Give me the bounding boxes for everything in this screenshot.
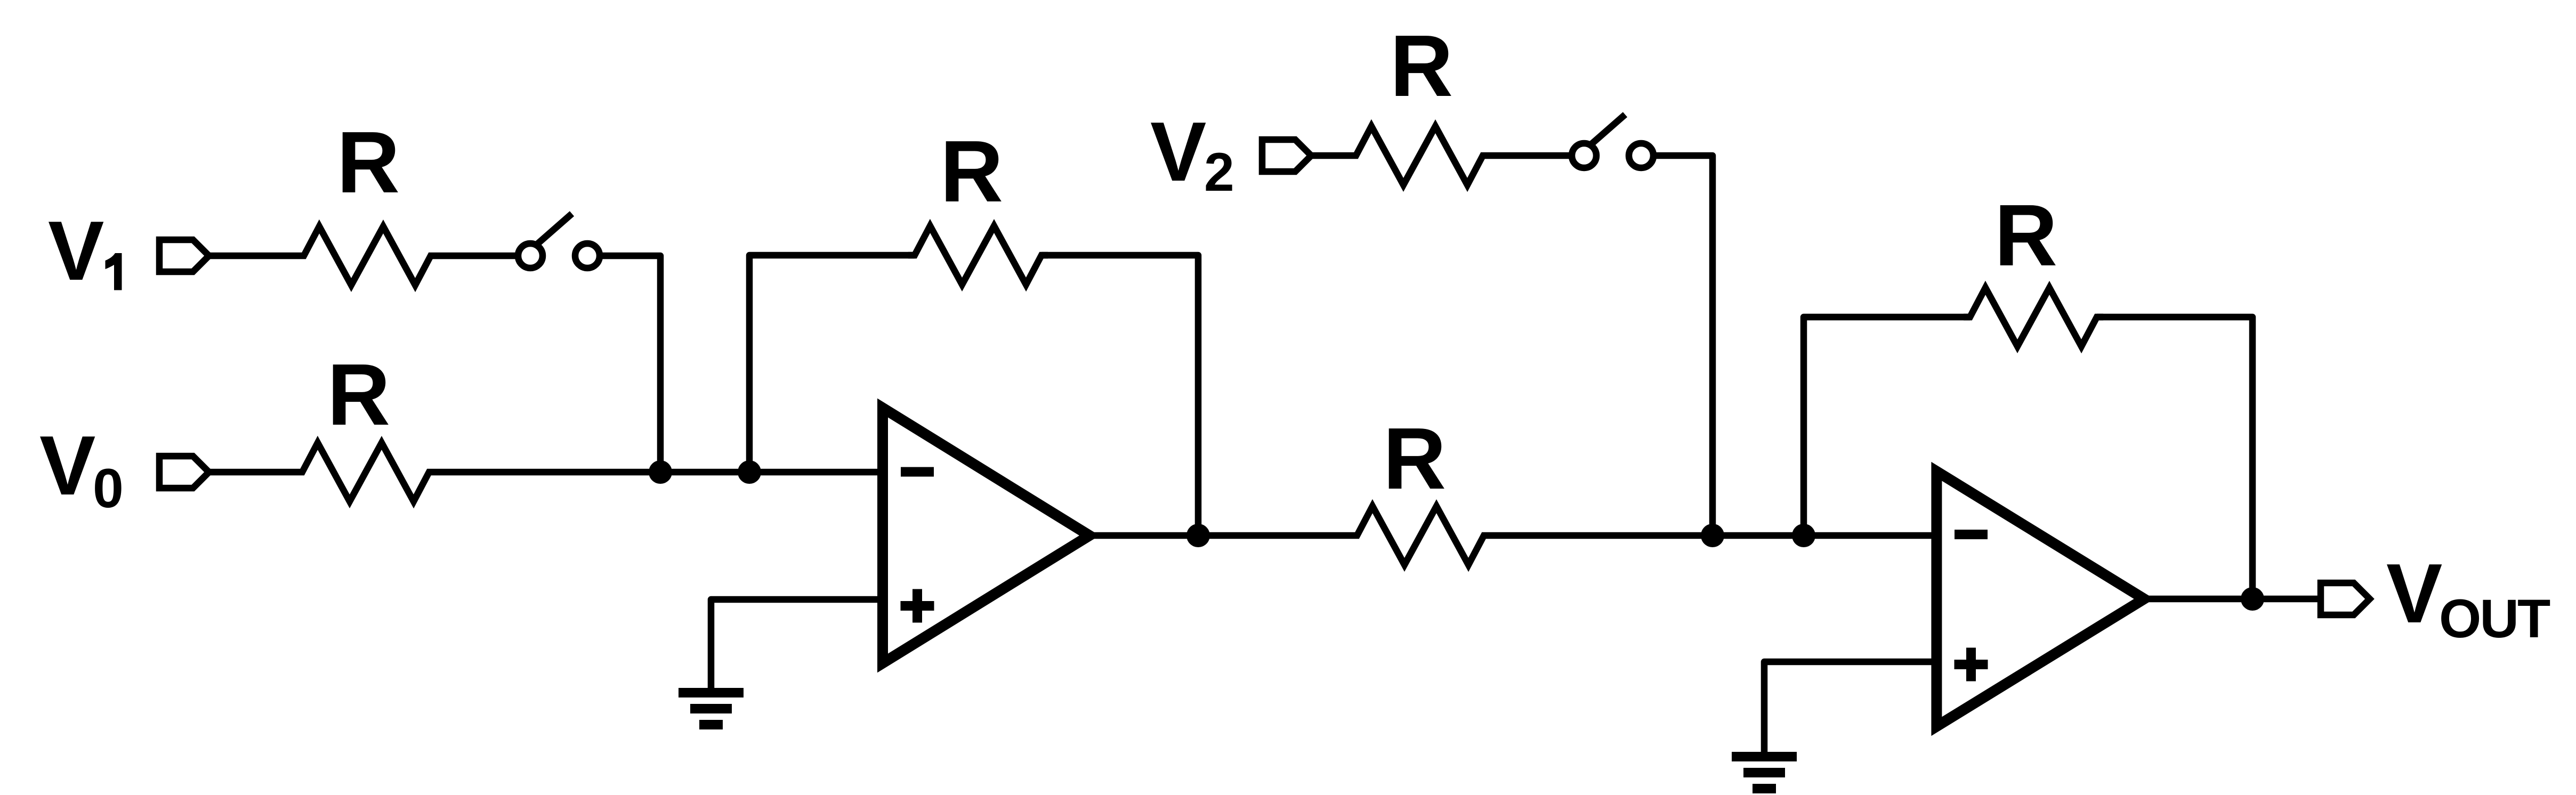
svg-text:R: R — [940, 123, 1003, 220]
svg-text:V: V — [2386, 547, 2442, 640]
svg-text:0: 0 — [93, 458, 124, 520]
svg-text:R: R — [1383, 410, 1446, 507]
svg-text:R: R — [337, 113, 400, 211]
svg-text:2: 2 — [1204, 142, 1234, 202]
svg-text:OUT: OUT — [2439, 588, 2550, 649]
svg-text:V: V — [48, 204, 104, 298]
svg-text:R: R — [1994, 186, 2057, 284]
svg-text:V: V — [39, 419, 95, 513]
svg-text:R: R — [327, 346, 390, 443]
svg-text:R: R — [1390, 17, 1453, 115]
svg-text:V: V — [1150, 105, 1206, 199]
